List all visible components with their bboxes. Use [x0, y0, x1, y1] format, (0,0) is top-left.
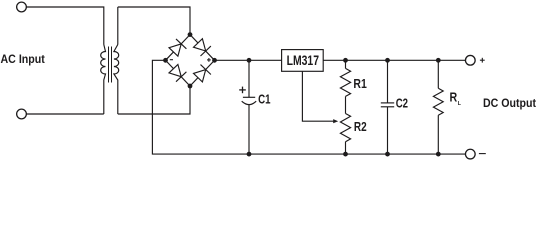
- svg-text:R1: R1: [353, 76, 366, 91]
- C1 plus sign: [239, 87, 246, 94]
- AC input terminal bottom: [17, 109, 27, 119]
- bridge rectifier diamond wires: [166, 35, 215, 86]
- transformer secondary winding: [114, 45, 119, 115]
- load resistor RL: [433, 60, 443, 154]
- diode D2 top-right: [194, 39, 206, 51]
- node bridge bottom: [188, 84, 193, 89]
- diode D3 bottom-left: [169, 64, 181, 76]
- resistor R2: [340, 96, 350, 154]
- arrowhead ADJ: [333, 119, 338, 123]
- svg-text:R2: R2: [354, 119, 367, 134]
- diode D2 cathode bar: [201, 46, 211, 56]
- regulator U1 LM317 box: [282, 50, 324, 72]
- svg-text:R: R: [450, 89, 458, 104]
- node bridge top: [188, 32, 193, 37]
- diode D4 bottom-right: [194, 70, 206, 82]
- wire secondary top to bridge top: [117, 7, 119, 45]
- transformer core: [108, 47, 110, 83]
- capacitor C1: [242, 60, 257, 154]
- node R2 bottom: [343, 152, 348, 157]
- node C1 bottom: [247, 152, 252, 157]
- svg-text:AC Input: AC Input: [1, 53, 45, 66]
- diode D1 cathode bar: [176, 39, 186, 49]
- wire bottom-left to transformer primary: [26, 113, 103, 115]
- svg-text:DC Output: DC Output: [483, 96, 536, 110]
- DC output terminal minus: [465, 149, 475, 159]
- svg-text:C1: C1: [258, 91, 270, 106]
- node bridge left: [163, 58, 168, 63]
- wire LM317 ADJ pin to R2 wiper: [302, 71, 334, 121]
- node C2 top: [385, 58, 390, 63]
- svg-text:C2: C2: [396, 95, 408, 110]
- node C2 bottom: [385, 152, 390, 157]
- positive rail from bridge to output: [215, 59, 466, 61]
- AC input terminal top: [17, 2, 27, 12]
- node C1 top: [247, 58, 252, 63]
- resistor R1: [340, 60, 350, 96]
- diode D3 cathode bar: [176, 72, 186, 82]
- bridge plus label: [207, 58, 211, 62]
- diode D4 cathode bar: [201, 65, 211, 75]
- output plus sign: [480, 58, 485, 63]
- node RL bottom: [436, 152, 441, 157]
- svg-text:LM317: LM317: [287, 53, 319, 68]
- node R1 top: [343, 58, 348, 63]
- wire top-left to transformer primary: [26, 7, 103, 45]
- transformer primary winding T1: [101, 45, 106, 115]
- bridge minus label: [170, 59, 173, 61]
- output minus sign: [479, 153, 486, 155]
- node RL top: [436, 58, 441, 63]
- node bridge right: [212, 58, 217, 63]
- DC output terminal plus: [465, 55, 475, 65]
- svg-text:L: L: [458, 101, 462, 107]
- wire bridge negative to bottom rail: [152, 60, 465, 154]
- capacitor C2: [381, 60, 394, 154]
- wire secondary bottom to bridge bottom: [118, 86, 190, 114]
- diode D1 top-left: [169, 44, 181, 56]
